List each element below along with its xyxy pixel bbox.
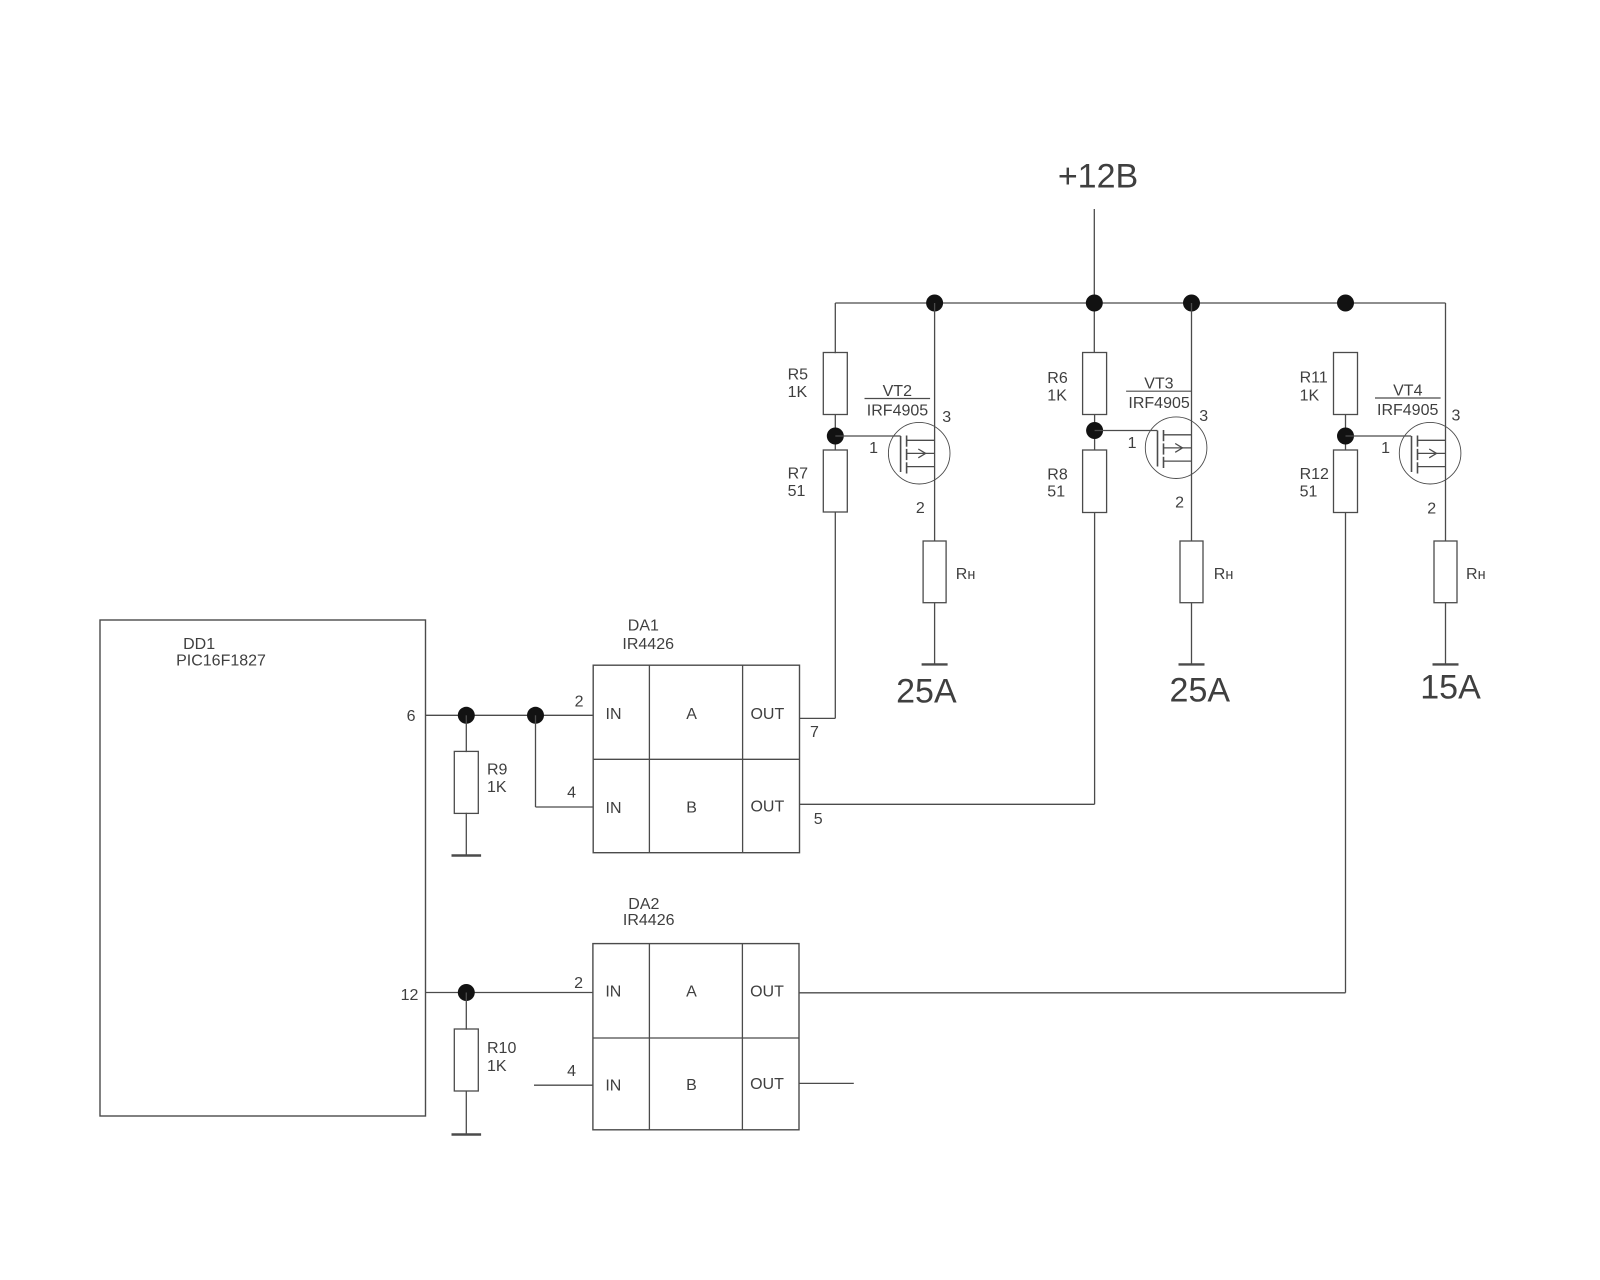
- wire DD1 pin 6 to DA1 IN A: [426, 714, 594, 716]
- svg-text:OUT: OUT: [750, 799, 784, 816]
- label Rн (VT2 output): [956, 566, 976, 583]
- svg-text:A: A: [686, 706, 697, 723]
- svg-text:51: 51: [788, 483, 806, 500]
- wire branch down to DA1 IN B: [535, 715, 537, 807]
- svg-text:A: A: [686, 983, 697, 1000]
- label DD1 PIC16F1827: [176, 636, 266, 669]
- svg-text:B: B: [686, 1077, 697, 1094]
- pin number 6 of DD1: [407, 708, 416, 725]
- junction rail / VT2 drain rail: [926, 295, 943, 312]
- resistor R5 body: [823, 353, 847, 415]
- svg-text:IN: IN: [606, 800, 622, 817]
- load resistor Rн (VT2 output): [923, 541, 946, 603]
- svg-text:IR4426: IR4426: [623, 912, 675, 929]
- label R10 1K: [487, 1040, 516, 1075]
- pin number 7 of DA1: [810, 724, 819, 741]
- wire DA2 IN B stub: [534, 1084, 593, 1086]
- resistor R9 body: [454, 751, 478, 813]
- resistor R7 body: [823, 450, 847, 512]
- svg-text:2: 2: [1175, 495, 1184, 512]
- wire R11 to R12 through gate node: [1345, 414, 1347, 451]
- label Rн (VT3 output): [1214, 566, 1234, 583]
- svg-text:R5: R5: [788, 367, 809, 384]
- svg-text:VT4: VT4: [1393, 383, 1422, 400]
- resistor R10 body: [454, 1029, 478, 1091]
- svg-text:4: 4: [567, 1063, 576, 1080]
- node VT4 gate junction: [1337, 428, 1354, 445]
- wire DD1 pin 12 to DA2 IN A: [426, 992, 593, 994]
- svg-text:51: 51: [1047, 484, 1065, 501]
- svg-text:IRF4905: IRF4905: [1377, 402, 1438, 419]
- ground VT2 load: [922, 663, 948, 665]
- wire R6 to R8 through gate node: [1094, 414, 1096, 451]
- svg-text:4: 4: [567, 785, 576, 802]
- svg-text:1: 1: [869, 440, 878, 457]
- load resistor Rн (VT3 output): [1180, 541, 1203, 603]
- resistor R6 body: [1083, 353, 1107, 415]
- label R6 1K: [1047, 370, 1068, 405]
- svg-text:DA2: DA2: [628, 896, 659, 913]
- transistor VT3 IRF4905: [1126, 376, 1208, 512]
- svg-text:DA1: DA1: [628, 618, 659, 635]
- svg-text:Rн: Rн: [1466, 566, 1486, 583]
- svg-text:R11: R11: [1300, 370, 1328, 387]
- IC DD1 PIC16F1827 body: [100, 620, 426, 1116]
- IC DA1 IR4426 body with cells IN/A/OUT and IN/B/OUT: [593, 665, 799, 853]
- svg-text:IRF4905: IRF4905: [1128, 395, 1189, 412]
- wire VT4 drain rail: [1445, 303, 1447, 542]
- label DA1 IR4426: [622, 618, 674, 654]
- junction rail / VT3 drain rail: [1183, 295, 1200, 312]
- wire Rн to ground (VT2 output): [934, 602, 936, 664]
- wire DA2 OUT A run: [799, 992, 1346, 994]
- svg-text:VT2: VT2: [883, 383, 912, 400]
- wire R10 to ground: [465, 1091, 467, 1135]
- label 25A (VT3 load current): [1170, 672, 1231, 710]
- wire DA2 OUT B stub: [799, 1082, 854, 1084]
- label R7 51: [788, 466, 809, 501]
- transistor VT2 IRF4905: [865, 383, 952, 517]
- label Rн (VT4 output): [1466, 566, 1486, 583]
- junction rail / R11: [1337, 295, 1354, 312]
- svg-text:1K: 1K: [788, 384, 808, 401]
- junction pin6 / R9: [458, 707, 475, 724]
- svg-text:OUT: OUT: [750, 983, 784, 1000]
- svg-text:IRF4905: IRF4905: [867, 403, 928, 420]
- pin number 12 of DD1: [401, 987, 419, 1004]
- wire +12V top power rail: [835, 302, 1445, 304]
- svg-text:VT3: VT3: [1144, 376, 1173, 393]
- svg-text:+12B: +12B: [1058, 158, 1138, 196]
- svg-text:7: 7: [810, 724, 819, 741]
- svg-text:3: 3: [1199, 408, 1208, 425]
- pin number 4 of DA2: [567, 1063, 576, 1080]
- label DA2 IR4426: [623, 896, 675, 929]
- svg-text:2: 2: [1427, 501, 1436, 518]
- ground VT4 load: [1433, 663, 1459, 665]
- label R11 1K: [1300, 370, 1328, 405]
- svg-text:2: 2: [575, 694, 584, 711]
- pin number 5 of DA1: [814, 811, 823, 828]
- svg-text:Rн: Rн: [1214, 566, 1234, 583]
- svg-text:3: 3: [1452, 407, 1461, 424]
- svg-text:OUT: OUT: [750, 1076, 784, 1093]
- svg-text:PIC16F1827: PIC16F1827: [176, 653, 266, 670]
- label R8 51: [1047, 467, 1068, 501]
- junction rail / +12V feed: [1086, 295, 1103, 312]
- svg-text:IN: IN: [606, 706, 622, 723]
- label 25A (VT2 load current): [896, 673, 957, 711]
- svg-text:15A: 15A: [1420, 669, 1481, 707]
- junction pin6 / branch to DA1 IN B: [527, 707, 544, 724]
- svg-text:1K: 1K: [1300, 388, 1320, 405]
- resistor R8 body: [1083, 450, 1107, 513]
- wire VT2 gate: [835, 435, 900, 437]
- wire pin6 node down to R9: [465, 715, 467, 752]
- svg-text:DD1: DD1: [183, 636, 215, 653]
- wire Rн to ground (VT4 output): [1445, 602, 1447, 664]
- wire into DA1 IN B: [536, 806, 594, 808]
- label R9 1K: [487, 762, 508, 797]
- svg-text:3: 3: [942, 409, 951, 426]
- svg-text:2: 2: [574, 975, 583, 992]
- svg-text:2: 2: [916, 500, 925, 517]
- resistor R11 body: [1334, 353, 1358, 415]
- wire pin12 node down to R10: [465, 993, 467, 1030]
- node VT2 gate junction: [827, 428, 844, 445]
- resistor R12 body: [1334, 450, 1358, 513]
- svg-text:1K: 1K: [487, 779, 507, 796]
- wire DA1 OUT A to riser (pin 7 net): [800, 717, 836, 719]
- ground R10: [452, 1133, 482, 1135]
- wire DA1 OUT B run (pin 5 net): [800, 803, 1095, 805]
- wire VT3 drain rail: [1191, 303, 1193, 542]
- ground R9: [452, 854, 482, 856]
- svg-text:12: 12: [401, 987, 419, 1004]
- svg-text:Rн: Rн: [956, 566, 976, 583]
- wire R9 to ground: [465, 813, 467, 856]
- svg-text:B: B: [686, 800, 697, 817]
- svg-text:25A: 25A: [1170, 672, 1231, 710]
- wire R8 down to DA1 OUT B: [1094, 513, 1096, 805]
- svg-text:R12: R12: [1300, 466, 1329, 483]
- svg-text:R10: R10: [487, 1040, 516, 1057]
- pin number 4 of DA1: [567, 785, 576, 802]
- pin number 2 of DA2: [574, 975, 583, 992]
- pin number 2 of DA1: [575, 694, 584, 711]
- svg-text:R9: R9: [487, 762, 508, 779]
- IC DA2 IR4426 body with cells IN/A/OUT and IN/B/OUT: [593, 944, 799, 1130]
- ground VT3 load: [1179, 663, 1205, 665]
- wire R5 to R7 through gate node: [834, 414, 836, 451]
- svg-text:R8: R8: [1047, 467, 1068, 484]
- svg-text:IN: IN: [605, 983, 621, 1000]
- wire +12V feed down to rail and R6: [1093, 209, 1095, 353]
- svg-text:1: 1: [1381, 440, 1390, 457]
- svg-text:1K: 1K: [1047, 388, 1067, 405]
- label R5 1K: [788, 367, 809, 402]
- svg-text:R6: R6: [1047, 370, 1068, 387]
- wire VT4 gate: [1346, 435, 1412, 437]
- svg-text:6: 6: [407, 708, 416, 725]
- svg-text:IN: IN: [605, 1078, 621, 1095]
- svg-text:OUT: OUT: [750, 706, 784, 723]
- wire VT2 drain rail: [934, 303, 936, 542]
- junction pin12 / R10: [458, 984, 475, 1001]
- power net label +12B: [1058, 158, 1138, 196]
- label 15A (VT4 load current): [1420, 669, 1481, 707]
- svg-text:R7: R7: [788, 466, 809, 483]
- wire VT3 gate: [1095, 430, 1158, 432]
- label R12 51: [1300, 466, 1329, 501]
- transistor VT4 IRF4905: [1375, 383, 1461, 518]
- wire rail corner down to R5: [834, 303, 836, 353]
- svg-text:51: 51: [1300, 484, 1318, 501]
- node VT3 gate junction: [1086, 422, 1103, 439]
- load resistor Rн (VT4 output): [1434, 541, 1457, 603]
- wire R7 down to DA1 OUT A: [834, 513, 836, 719]
- wire R12 down to DA2 OUT A: [1345, 513, 1347, 993]
- svg-text:25A: 25A: [896, 673, 957, 711]
- wire Rн to ground (VT3 output): [1191, 602, 1193, 664]
- svg-text:IR4426: IR4426: [622, 636, 674, 653]
- svg-text:1K: 1K: [487, 1058, 507, 1075]
- svg-text:5: 5: [814, 811, 823, 828]
- svg-text:1: 1: [1128, 435, 1137, 452]
